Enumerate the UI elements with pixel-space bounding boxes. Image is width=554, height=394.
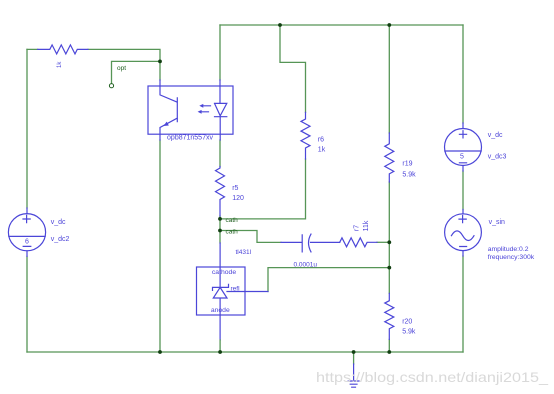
svg-text:5: 5 [460, 154, 464, 161]
svg-text:frequency:300k: frequency:300k [488, 254, 535, 261]
svg-text:anode: anode [211, 307, 230, 314]
junction bottom bus / emitter [158, 350, 162, 354]
wire emitter to bottom bus [159, 140, 161, 352]
wire r19 top to top bus [388, 25, 390, 133]
wire top bus [220, 24, 463, 26]
svg-text:5.9k: 5.9k [402, 171, 416, 178]
wire LED anode from top bus [219, 25, 221, 80]
svg-text:tl431l: tl431l [236, 249, 252, 256]
svg-text:r7: r7 [354, 225, 361, 231]
svg-text:v_dc3: v_dc3 [488, 154, 507, 161]
svg-text:120: 120 [232, 195, 244, 202]
source V3 v_sin [445, 210, 482, 257]
wire ground stem [353, 352, 355, 364]
svg-text:r5: r5 [232, 185, 238, 192]
resistor r20 5.9k [385, 293, 394, 339]
junction bottom bus / ground [352, 350, 356, 354]
junction bottom bus / tl431 anode [218, 350, 222, 354]
svg-text:6: 6 [25, 239, 29, 246]
resistor r19 5.9k [385, 133, 394, 182]
svg-text:1k: 1k [318, 146, 326, 153]
wire node cath to r6 [220, 159, 306, 219]
ground [348, 364, 359, 387]
optocoupler U1 opb871n557xv [148, 80, 233, 140]
wire r7 to r19 column [377, 241, 389, 243]
wire r20 bottom to bottom bus [388, 339, 390, 352]
transistor emitter arrow [163, 122, 168, 126]
svg-text:cath: cath [226, 217, 239, 224]
svg-text:r6: r6 [318, 136, 324, 143]
svg-text:r19: r19 [402, 161, 412, 168]
wire opt branch [112, 61, 161, 83]
svg-text:amplitude:0.2: amplitude:0.2 [488, 246, 529, 253]
wire v_dc3 to v_sin [462, 171, 464, 210]
wire left column bottom [26, 256, 28, 352]
wire node cath2 to capacitor [220, 231, 281, 243]
junction node cath lower [218, 229, 222, 233]
svg-text:cath: cath [226, 228, 239, 235]
svg-text:v_dc: v_dc [51, 219, 66, 226]
svg-text:v_sin: v_sin [489, 219, 505, 226]
svg-text:opb871n557xv: opb871n557xv [167, 135, 213, 142]
wire bottom bus [27, 351, 463, 353]
junction bottom bus / r20 [387, 350, 391, 354]
source V1 v_dc2 [8, 208, 45, 256]
svg-text:v_dc: v_dc [488, 132, 503, 139]
junction top bus / r19 branch [387, 23, 391, 27]
tl431 U2 [197, 243, 269, 340]
junction r7 / r19 column [387, 240, 391, 244]
wire r6 top jog to top bus [280, 25, 306, 112]
resistor r7 11k [340, 238, 377, 247]
wire ref net from tl431 [268, 268, 389, 292]
resistor rx (1k) [38, 45, 88, 54]
svg-text:11k: 11k [363, 220, 370, 231]
svg-text:0.0001u: 0.0001u [294, 261, 318, 268]
svg-text:refl: refl [231, 285, 241, 292]
source V2 v_dc3 [445, 123, 482, 171]
capacitor C1 0.0001u [281, 234, 340, 252]
svg-text:v_dc2: v_dc2 [51, 236, 70, 243]
wire v_sin bottom to bottom bus [462, 256, 464, 352]
wire LED cathode to r5 [219, 140, 221, 167]
wire right column to v_dc3 [462, 25, 464, 123]
wire r5 bottom to tl431 cathode pin [219, 216, 221, 243]
LED arrow heads [199, 104, 203, 108]
svg-text:1k: 1k [57, 61, 63, 68]
svg-text:cathode: cathode [212, 269, 236, 276]
svg-text:r20: r20 [402, 318, 412, 325]
open terminal opt [109, 84, 113, 88]
wire rx to collector corner [27, 49, 160, 80]
wire tl431 anode to bottom bus [219, 340, 221, 352]
junction node cath upper [218, 217, 222, 221]
junction ref net / r19 column [387, 266, 391, 270]
svg-text:https://blog.csdn.net/dianji20: https://blog.csdn.net/dianji2015_ [316, 369, 548, 385]
resistor r5 120 [216, 167, 225, 217]
junction at opt branch [158, 60, 162, 64]
wire r19 column mid [388, 182, 390, 293]
junction top bus / r6 branch [278, 23, 282, 27]
wire left column top [26, 49, 28, 208]
resistor r6 1k [301, 112, 310, 159]
svg-text:opt: opt [117, 65, 126, 72]
svg-text:5.9k: 5.9k [402, 329, 416, 336]
